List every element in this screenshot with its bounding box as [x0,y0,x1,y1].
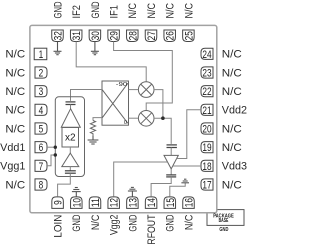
svg-text:GND: GND [90,1,102,18]
wire RFOUT to pin 14 [151,177,171,197]
mixer bottom (Q) [138,111,154,127]
package base box [207,210,244,226]
svg-text:11: 11 [90,198,102,207]
svg-text:N/C: N/C [183,214,195,230]
amplifier A1 (LO buffer, points up) [61,109,80,128]
pin 18 [201,160,213,173]
pin 22 [201,86,213,99]
svg-text:8: 8 [39,180,44,192]
pin 16 [183,197,196,209]
pin 14 [145,197,158,209]
ground wire at pin 15 [170,183,185,197]
svg-text:28: 28 [127,31,139,40]
svg-text:29: 29 [109,31,121,40]
svg-text:14: 14 [146,198,158,207]
quadrature hybrid [102,81,129,126]
amplifier A3 (RF output amp, points down) [164,155,178,169]
pin 29 [108,30,121,42]
svg-text:IF2: IF2 [71,5,83,18]
svg-text:Vdd3: Vdd3 [222,161,247,173]
pin 17 [201,179,213,192]
pin 26 [164,30,177,42]
svg-text:7: 7 [39,161,44,173]
svg-text:N/C: N/C [165,3,177,19]
svg-text:LOIN: LOIN [53,215,65,238]
pin 10 [71,197,84,209]
pin 8 [35,179,47,192]
wire IF2: pin 31 to top mixer [76,42,146,82]
LO multiplier chain enclosure [55,97,84,177]
pin 24 [201,48,213,61]
amplifier A2 (LO input amp, points up) [62,153,79,167]
pin 9 [52,197,65,209]
pin 2 [35,67,47,80]
wire cap to RF amp [170,148,172,156]
junction node [161,116,165,120]
wire Vgg2 pin 12 to RF amp [114,162,168,197]
pin 21 [201,104,213,117]
pin 15 [164,197,177,209]
svg-text:24: 24 [202,49,211,61]
wire Vdd3 pin 18 to RF amp [173,165,201,167]
svg-text:2: 2 [39,68,44,80]
svg-text:20: 20 [202,124,211,136]
svg-text:31: 31 [71,31,83,40]
svg-text:3: 3 [39,86,44,98]
svg-text:GND: GND [52,1,64,18]
svg-text:0: 0 [124,120,127,126]
wire Vdd1 pin 6 to LO chain [47,146,55,148]
pin 27 [145,30,158,42]
ground at pin 10 [72,188,81,197]
wire x2 to amp A2 [69,147,71,153]
svg-text:16: 16 [184,198,196,207]
svg-text:GND: GND [71,214,83,231]
wire top mixer output down to junction [154,90,163,119]
pin 31 [70,30,83,42]
pin 6 [35,142,47,155]
svg-text:GND: GND [219,227,228,233]
capacitor C top of LO chain [66,102,76,105]
svg-text:N/C: N/C [222,179,242,191]
svg-text:10: 10 [71,198,83,207]
svg-text:15: 15 [165,198,177,207]
svg-text:IF1: IF1 [109,5,121,18]
capacitor C RF (above amp) [167,145,177,148]
svg-text:N/C: N/C [222,86,242,98]
svg-text:RFOUT: RFOUT [146,214,158,244]
svg-text:27: 27 [146,31,158,40]
pin 28 [127,30,140,42]
svg-text:26: 26 [165,31,177,40]
wire hybrid to top mixer [129,89,139,91]
pin 32 [52,30,65,42]
svg-text:-90: -90 [116,82,128,88]
svg-text:17: 17 [202,180,211,192]
svg-text:N/C: N/C [222,49,242,61]
svg-text:GND: GND [127,214,139,231]
wire cap to amp [70,105,72,109]
svg-text:BASE: BASE [219,218,229,224]
svg-text:21: 21 [202,105,211,117]
pin 4 [35,104,47,117]
svg-text:N/C: N/C [5,67,25,79]
svg-text:22: 22 [202,86,211,98]
wire RF amp to cap [170,169,172,175]
wire hybrid input from LO chain [71,90,103,101]
hybrid termination wire [93,118,102,121]
wire Vgg1 pin 7 to LO chain [47,155,55,166]
svg-text:x2: x2 [65,133,76,144]
resistor (hybrid termination) [90,121,95,136]
svg-text:N/C: N/C [5,105,25,117]
svg-text:Vgg2: Vgg2 [109,215,121,236]
wire IF1: pin 29 to bottom mixer [114,42,173,111]
svg-text:N/C: N/C [127,3,139,19]
svg-text:N/C: N/C [5,49,25,61]
pin 5 [35,123,47,136]
node Vgg1 [54,153,57,156]
svg-text:N/C: N/C [5,86,25,98]
svg-text:9: 9 [53,200,65,205]
pin 20 [201,123,213,136]
ground at pin 15 [181,179,189,183]
svg-text:Vdd1: Vdd1 [0,142,25,154]
svg-text:12: 12 [109,198,121,207]
svg-text:23: 23 [202,68,211,80]
pin 13 [127,197,140,209]
svg-text:6: 6 [39,142,44,154]
wire LO chain to pin 9 [58,173,71,196]
pin 19 [201,142,213,155]
svg-text:N/C: N/C [222,67,242,79]
svg-text:GND: GND [165,214,177,231]
wire bottom mixer output to RF path [154,118,171,144]
pin 7 [35,160,47,173]
svg-text:18: 18 [202,161,211,173]
pin 23 [201,67,213,80]
svg-text:Vdd2: Vdd2 [222,105,247,117]
svg-text:1: 1 [39,49,44,61]
svg-text:19: 19 [202,142,211,154]
chip package outline [30,25,217,212]
pin 1 [34,48,47,61]
svg-text:N/C: N/C [222,123,242,135]
pin 11 [89,197,102,209]
mixer top (I) [138,82,154,98]
svg-text:N/C: N/C [90,214,102,230]
wire hybrid to bottom mixer [129,117,139,119]
pin 12 [108,197,121,209]
svg-text:13: 13 [127,198,139,207]
ground at pin 13 [128,187,137,196]
svg-text:N/C: N/C [183,3,195,19]
svg-text:N/C: N/C [5,123,25,135]
capacitor C bottom of LO chain [65,171,76,173]
svg-text:25: 25 [183,31,195,40]
svg-text:4: 4 [39,105,44,117]
capacitor C RF out [166,175,176,177]
wire amp A2 to cap [69,167,71,171]
svg-text:32: 32 [53,31,65,40]
ground at resistor [88,135,99,144]
pin 30 [89,30,102,42]
svg-text:5: 5 [39,124,44,136]
node Vdd1 [54,146,57,149]
pin 3 [35,86,47,99]
svg-text:N/C: N/C [222,142,242,154]
svg-text:N/C: N/C [5,179,25,191]
ground at pin 30 [91,42,99,55]
svg-text:N/C: N/C [146,3,158,19]
wire Vdd2 pin 21 to RF amp [176,110,201,159]
svg-text:Vgg1: Vgg1 [0,161,25,173]
svg-text:30: 30 [90,31,102,40]
ground at pin 32 [54,42,62,55]
x2 frequency multiplier [62,128,79,148]
pin 25 [183,30,196,42]
